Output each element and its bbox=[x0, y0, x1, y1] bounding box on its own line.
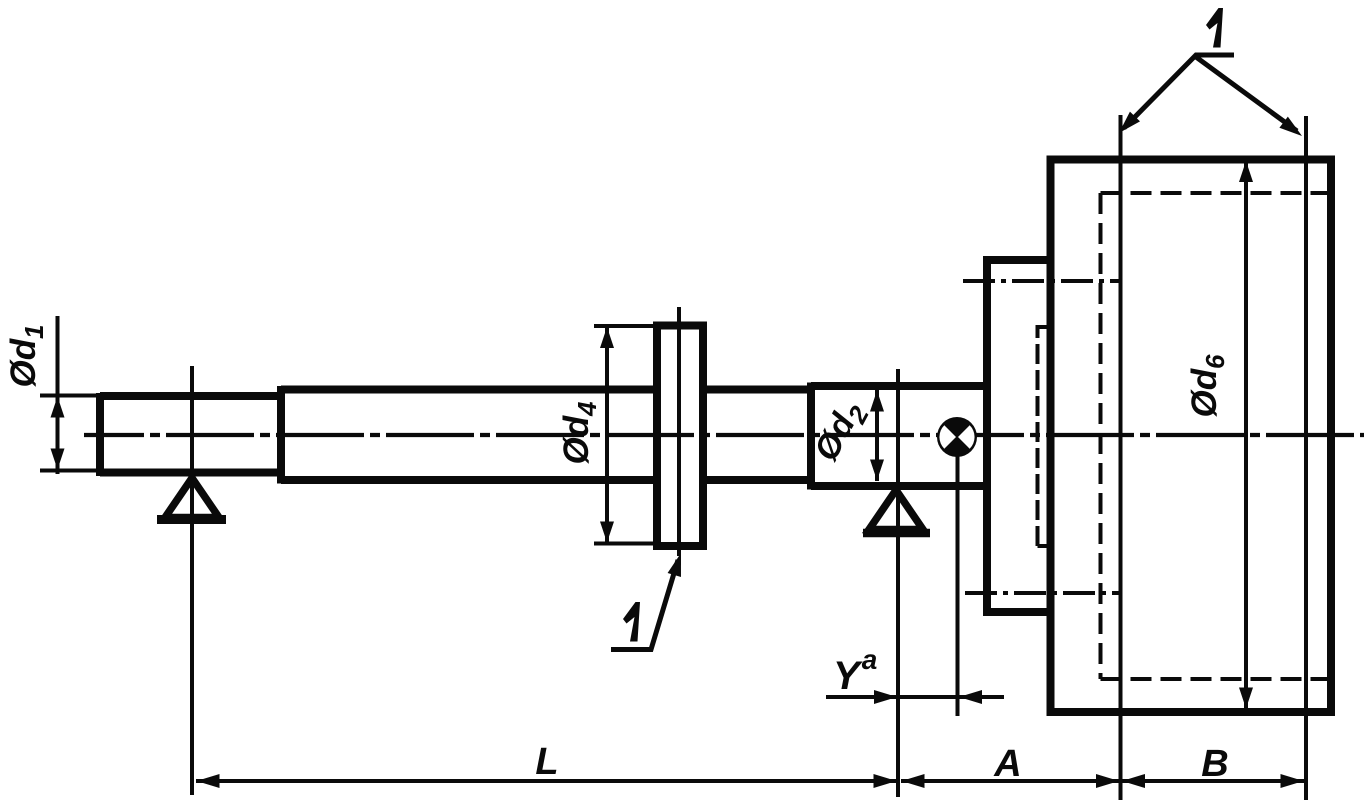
support triangle 1 bbox=[165, 478, 219, 518]
leader 1 bottom arrowhead bbox=[668, 551, 688, 577]
d4 arrows bbox=[600, 327, 614, 348]
disc (collar) bbox=[657, 326, 703, 547]
shaft long shank bbox=[281, 386, 811, 484]
shaft section d2 bbox=[811, 383, 987, 490]
d1 arrows bbox=[51, 397, 65, 418]
arrowheads bbox=[51, 112, 1307, 788]
leader 1 bottom underline bbox=[611, 560, 678, 650]
dim line L bbox=[196, 779, 897, 783]
label 1 top bbox=[1206, 8, 1223, 48]
dim line B bbox=[1122, 779, 1304, 783]
dim d1: vertical line + ticks bbox=[40, 316, 100, 474]
dim d4: ticks + line bbox=[594, 326, 657, 544]
small block (process connection) bbox=[987, 260, 1051, 612]
center of gravity symbol bbox=[937, 417, 977, 457]
extension line A right / B left bbox=[1119, 115, 1123, 800]
dim line Ya bbox=[826, 695, 1004, 699]
leader 1 top-right arrowhead bbox=[1279, 117, 1306, 142]
leader 1 top underline + arrows lines bbox=[1124, 55, 1297, 131]
dim d2 line bbox=[875, 390, 879, 481]
A arrows bbox=[902, 774, 925, 788]
L arrows bbox=[197, 774, 220, 788]
svg-text:A: A bbox=[993, 743, 1021, 785]
B arrows bbox=[1122, 774, 1145, 788]
big block (head) bbox=[1051, 160, 1332, 713]
extension line L right / A left bbox=[896, 369, 900, 797]
main centerline bbox=[84, 433, 1364, 437]
disc centerline bbox=[677, 307, 681, 556]
svg-text:L: L bbox=[535, 741, 558, 783]
leader 1 top-left arrowhead bbox=[1114, 112, 1140, 138]
d2 arrows bbox=[870, 391, 884, 412]
dim d6 line bbox=[1244, 161, 1248, 709]
svg-text:B: B bbox=[1201, 743, 1228, 785]
extension line B right bbox=[1304, 116, 1308, 800]
Ya arrows (outside) bbox=[874, 690, 897, 704]
support triangle 2 bbox=[869, 490, 923, 530]
hidden stem outline bbox=[1038, 327, 1051, 546]
dim line A bbox=[901, 779, 1119, 783]
Ya vertical line bbox=[956, 450, 960, 716]
phantom line lower bbox=[965, 591, 1120, 595]
shaft section d1 bbox=[100, 393, 281, 476]
label 1 bottom bbox=[623, 602, 640, 642]
d6 arrows bbox=[1239, 161, 1253, 182]
hidden inner outline dashed bbox=[1101, 193, 1328, 679]
phantom line upper bbox=[963, 279, 1120, 283]
extension line L left bbox=[190, 366, 194, 795]
